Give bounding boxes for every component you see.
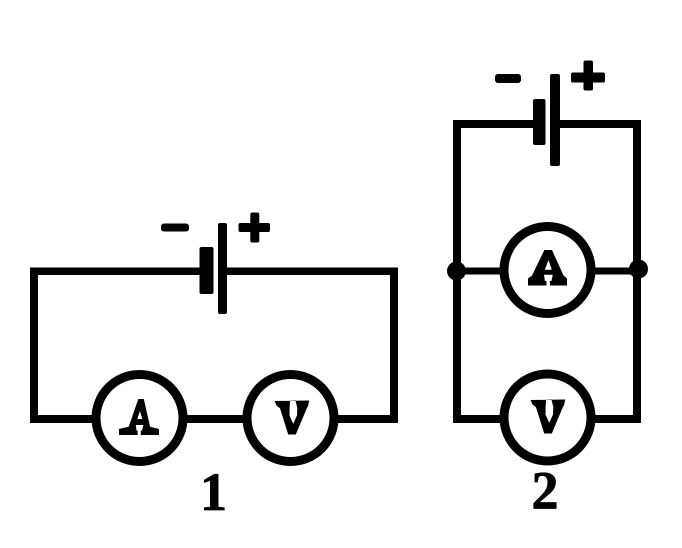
- wire: circuit 2 bottom (voltmeter): [453, 415, 641, 423]
- wire: circuit 1 left vertical: [30, 268, 38, 424]
- wire: circuit 2 middle branch (ammeter): [453, 268, 640, 275]
- battery B1 positive plate (long thin): [218, 223, 227, 314]
- wire: circuit 2 right vertical: [633, 120, 641, 423]
- svg-text:2: 2: [532, 461, 559, 521]
- wire: circuit 2 top, right segment from battery: [558, 120, 641, 128]
- circuit 1: [30, 213, 398, 523]
- voltmeter V (circuit 1): [247, 375, 334, 462]
- wire: circuit 1 top, right segment from battery: [224, 268, 398, 276]
- ammeter A (circuit 2): [504, 227, 591, 314]
- battery B2 minus label: [495, 74, 521, 83]
- battery B1 negative plate (short thick): [200, 247, 214, 294]
- wire: circuit 1 right vertical: [390, 268, 398, 424]
- voltmeter V (circuit 2): [504, 374, 591, 461]
- circuit 2: [447, 61, 648, 521]
- battery B1 minus label: [161, 224, 189, 232]
- svg-text:1: 1: [200, 462, 227, 522]
- wire: circuit 1 top, left segment to battery: [30, 268, 203, 276]
- wire: circuit 2 left vertical: [453, 120, 461, 423]
- junction node left (dot): [447, 262, 466, 281]
- ammeter A (circuit 1): [96, 375, 183, 462]
- junction node right (dot): [629, 260, 648, 279]
- battery B2 negative plate (short thick): [533, 99, 546, 145]
- battery B2 positive plate (long thin): [550, 74, 560, 166]
- wire: circuit 2 top, left segment to battery: [453, 120, 534, 128]
- battery B1 plus label: [239, 213, 271, 243]
- wire: circuit 1 bottom: [30, 415, 398, 423]
- battery B2 plus label: [571, 61, 605, 91]
